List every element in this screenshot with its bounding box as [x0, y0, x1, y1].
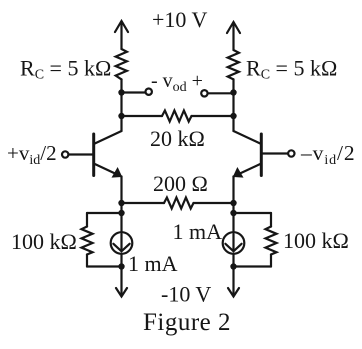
wire node C down to Q1 collector — [120, 116, 122, 131]
wire right 100k bottom to node J — [234, 265, 272, 267]
terminal vod- — [146, 89, 152, 95]
resistor 20k — [162, 111, 192, 122]
wire node D down to Q2 collector — [232, 116, 234, 131]
wire node F to node H — [232, 203, 234, 213]
svg-text:200 Ω: 200 Ω — [153, 171, 208, 196]
node H junction dot — [230, 210, 236, 216]
svg-text:Figure 2: Figure 2 — [143, 309, 231, 336]
wire current source I2 to node J — [232, 254, 234, 267]
terminal +vid/2 — [62, 151, 68, 157]
svg-text:100 kΩ: 100 kΩ — [11, 229, 77, 254]
resistor 100k left — [82, 213, 93, 267]
wire node H to current source I2 — [232, 213, 234, 232]
svg-text:-10 V: -10 V — [161, 282, 211, 307]
wire node G to current source I1 — [120, 213, 122, 232]
node I junction dot — [118, 263, 124, 269]
+10V supply arrow left — [115, 21, 128, 49]
-10V arrow right — [228, 267, 239, 297]
wire right rail resistor to node B — [232, 79, 234, 92]
svg-text:- vod +: - vod + — [151, 70, 203, 95]
wire node H to right 100k top — [234, 212, 272, 214]
node D junction dot — [230, 113, 236, 119]
wire Q2 base — [263, 152, 288, 154]
transistor Q2 — [234, 131, 262, 203]
+10V supply arrow right — [227, 22, 240, 50]
wire node E to node G — [120, 203, 122, 213]
wire vod+ terminal to node B — [208, 92, 234, 94]
node B junction dot — [230, 89, 236, 95]
svg-text:RC = 5 kΩ: RC = 5 kΩ — [20, 56, 111, 83]
wire node A to vod- terminal — [122, 91, 146, 93]
svg-text:100 kΩ: 100 kΩ — [283, 228, 349, 253]
wire 200 ohm right end to node F — [194, 202, 234, 204]
node G junction dot — [118, 210, 124, 216]
svg-text:1 mA: 1 mA — [128, 251, 178, 276]
svg-text:1 mA: 1 mA — [173, 219, 223, 244]
wire node C to 20k left end — [122, 115, 163, 117]
resistor RC left (5k) — [116, 49, 127, 79]
resistor 200 ohm — [164, 198, 194, 209]
node E junction dot — [118, 200, 124, 206]
svg-text:+vid/2: +vid/2 — [7, 141, 57, 168]
resistor 100k right — [266, 213, 277, 267]
node C junction dot — [118, 113, 124, 119]
wire node B to node D — [232, 93, 234, 117]
svg-text:+10 V: +10 V — [152, 7, 208, 32]
-10V arrow left — [116, 267, 127, 297]
wire node G to left 100k top — [87, 212, 122, 214]
node A junction dot — [118, 89, 124, 95]
wire left rail resistor to node A — [120, 79, 122, 92]
node J junction dot — [230, 263, 236, 269]
current source I1 (1 mA) — [111, 232, 133, 254]
terminal -vid/2 — [288, 150, 294, 156]
wire left 100k bottom to node I — [87, 265, 122, 267]
current source I2 (1 mA) — [223, 232, 245, 254]
svg-text:20 kΩ: 20 kΩ — [150, 126, 205, 151]
node F junction dot — [230, 200, 236, 206]
resistor RC right (5k) — [228, 50, 239, 79]
wire node E to 200 ohm left end — [122, 202, 165, 204]
wire node A to node C — [120, 93, 122, 117]
wire Q1 base — [69, 153, 93, 155]
transistor Q1 — [94, 131, 122, 203]
svg-text:–vid/2: –vid/2 — [300, 141, 356, 168]
svg-text:RC = 5 kΩ: RC = 5 kΩ — [246, 56, 337, 83]
terminal vod+ — [201, 90, 207, 96]
wire current source I1 to node I — [120, 254, 122, 267]
wire 20k right end to node D — [192, 115, 234, 117]
